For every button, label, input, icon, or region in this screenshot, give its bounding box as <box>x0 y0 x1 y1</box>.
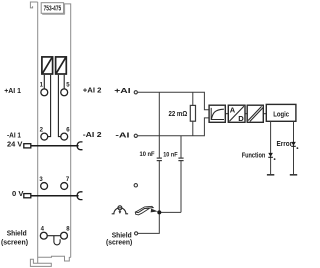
svg-text:+AI: +AI <box>114 88 130 95</box>
svg-text:(screen): (screen) <box>1 239 28 246</box>
svg-text:-AI 2: -AI 2 <box>83 132 102 139</box>
svg-text:Function: Function <box>242 153 266 160</box>
svg-text:Logic: Logic <box>273 109 289 118</box>
svg-text:A: A <box>230 108 235 115</box>
svg-text:Shield: Shield <box>7 230 27 237</box>
svg-text:+AI 1: +AI 1 <box>4 88 21 95</box>
svg-text:10 nF: 10 nF <box>140 151 155 158</box>
svg-text:(screen): (screen) <box>106 240 132 247</box>
svg-text:24 V: 24 V <box>7 142 23 149</box>
svg-text:Error: Error <box>277 141 293 148</box>
svg-text:753-475: 753-475 <box>44 3 62 12</box>
svg-text:22 mΩ: 22 mΩ <box>169 111 188 118</box>
svg-text:D: D <box>238 116 244 123</box>
svg-text:+AI 2: +AI 2 <box>83 88 102 95</box>
svg-text:-AI 1: -AI 1 <box>7 133 21 140</box>
svg-text:10 nF: 10 nF <box>163 151 177 158</box>
svg-text:0 V: 0 V <box>12 191 24 198</box>
svg-text:-AI: -AI <box>115 132 129 139</box>
svg-text:Shield: Shield <box>112 232 132 239</box>
